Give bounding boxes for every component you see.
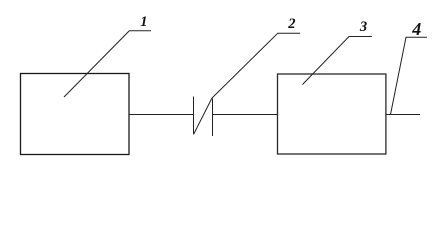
svg-text:4: 4: [411, 19, 421, 39]
svg-text:1: 1: [140, 14, 147, 30]
svg-text:3: 3: [359, 19, 367, 35]
svg-text:2: 2: [287, 16, 295, 32]
